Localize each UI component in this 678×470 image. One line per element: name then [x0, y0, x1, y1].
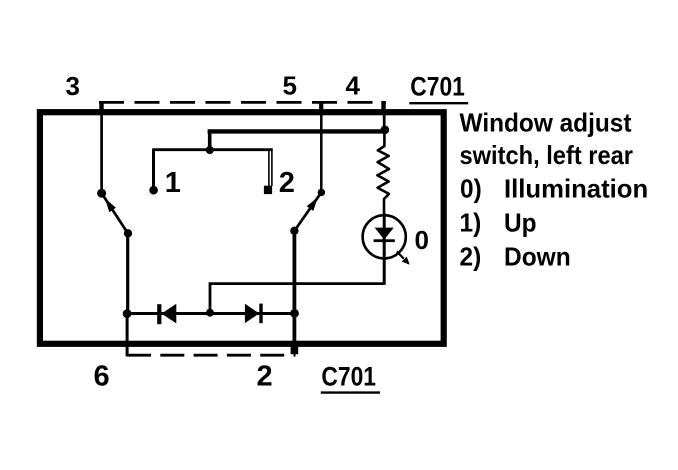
switch S2 top contact: [318, 189, 325, 196]
junction selector wire: [206, 146, 214, 154]
pin 3 wire: [99, 101, 103, 191]
resistor R: [377, 132, 389, 213]
contact 2 stub wire (double line): [269, 151, 272, 186]
switch S1 top contact: [97, 189, 106, 198]
svg-text:0: 0: [415, 225, 429, 255]
pin 6 drop wire: [126, 314, 129, 357]
svg-text:3: 3: [66, 71, 80, 101]
svg-text:Down: Down: [504, 242, 571, 272]
contact 1: [149, 186, 158, 195]
svg-text:2): 2): [460, 242, 482, 272]
switch S2 pivot: [290, 227, 298, 235]
connector C701 bottom dashed line: [127, 354, 296, 357]
switch body outline: [40, 112, 444, 344]
S1 leg wire: [126, 233, 129, 314]
diode D1: [157, 304, 176, 324]
label C701 top: [409, 71, 468, 103]
svg-text:2: 2: [279, 167, 295, 199]
selector wire: [152, 148, 273, 151]
switch S1 pivot: [124, 229, 132, 237]
junction diode bus right: [290, 309, 299, 318]
svg-text:5: 5: [283, 71, 297, 101]
contact 1 stub wire: [152, 150, 155, 188]
pin 5 wire: [319, 101, 323, 190]
pin 2 drop wire: [291, 314, 299, 355]
lamp wire through LED: [383, 213, 386, 285]
svg-text:2: 2: [257, 360, 273, 392]
diode bus wire: [127, 312, 295, 315]
junction diode bus middle: [206, 309, 214, 317]
svg-text:Window adjust: Window adjust: [460, 107, 632, 137]
svg-text:1): 1): [460, 207, 482, 237]
label C701 bottom: [321, 362, 380, 393]
svg-text:Up: Up: [504, 207, 537, 237]
connector C701 top dashed line: [99, 101, 386, 104]
svg-text:Illumination: Illumination: [504, 174, 648, 204]
svg-text:C701: C701: [410, 71, 465, 101]
contact 2: [264, 186, 272, 194]
LED lamp 0: [363, 215, 410, 265]
switch S1 blade: [102, 193, 129, 234]
legend text: [460, 107, 649, 271]
S2 leg wire: [292, 231, 296, 314]
svg-text:0): 0): [460, 174, 482, 204]
diode D2: [245, 304, 263, 324]
pin 4 wire: [381, 101, 386, 129]
lamp return wire: [210, 284, 384, 313]
supply wire from pin 4 junction: [208, 130, 387, 150]
svg-text:6: 6: [94, 360, 110, 392]
junction pin4-resistor: [381, 126, 390, 135]
svg-text:C701: C701: [321, 362, 376, 392]
switch S2 blade: [294, 192, 321, 231]
junction diode bus left: [123, 309, 132, 318]
svg-text:4: 4: [346, 71, 361, 101]
svg-text:1: 1: [165, 167, 181, 199]
svg-text:switch, left rear: switch, left rear: [460, 140, 634, 170]
